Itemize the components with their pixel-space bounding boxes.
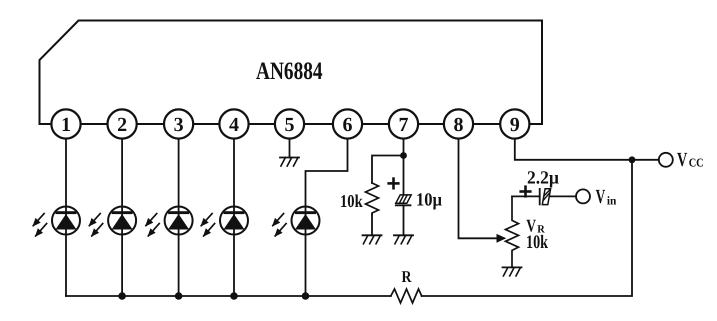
label 2.2u <box>527 168 559 188</box>
node junction at pin7 branch <box>400 152 407 159</box>
label Vin <box>596 186 617 208</box>
ground at C1 <box>394 235 413 244</box>
svg-text:8: 8 <box>454 114 464 136</box>
IC U1 AN6884 body outline <box>40 21 543 125</box>
wire junction to 10k resistor <box>372 156 404 184</box>
terminal Vin <box>576 189 590 203</box>
wire pin2 to bottom rail <box>121 139 123 296</box>
resistor R1 10k <box>366 183 379 215</box>
svg-text:10k: 10k <box>340 191 363 211</box>
pin 1 <box>51 109 80 138</box>
pin 5 <box>275 109 304 138</box>
label AN6884 <box>256 58 323 85</box>
svg-text:R: R <box>402 267 413 286</box>
wire C1 to ground <box>403 205 405 235</box>
label 10k (VR) <box>526 232 548 253</box>
ground at 10k <box>363 235 382 244</box>
LED D5 <box>273 207 320 236</box>
label 10k (left) <box>340 191 363 211</box>
wire pin1 to bottom rail <box>65 139 67 296</box>
svg-text:2: 2 <box>117 114 127 136</box>
label Vcc <box>677 149 704 171</box>
svg-text:in: in <box>607 194 617 208</box>
label + for C1 <box>389 179 399 189</box>
ground at pin 5 <box>280 158 299 167</box>
node junction rail at D5 <box>302 292 310 300</box>
node junction rail at D2 <box>118 292 126 300</box>
label + for C2 <box>521 187 531 197</box>
svg-text:3: 3 <box>174 114 184 136</box>
pin 4 <box>219 109 248 138</box>
node junction rail at D3 <box>175 292 183 300</box>
wire pin3 to bottom rail <box>178 139 180 296</box>
pin 6 <box>333 109 362 138</box>
svg-text:4: 4 <box>229 114 239 136</box>
svg-text:10k: 10k <box>526 232 548 253</box>
wire Vcc node down to bottom rail <box>422 160 632 296</box>
wire VR top to C2 <box>512 195 540 197</box>
potentiometer VR 10k <box>506 196 519 267</box>
wire bottom rail left of R <box>66 295 391 297</box>
capacitor C2 2.2u electrolytic <box>540 189 551 205</box>
wire pin6 jog to LED D5 column <box>306 139 348 296</box>
label R <box>402 267 413 286</box>
resistor R <box>391 289 422 303</box>
pin 9 <box>500 109 529 138</box>
svg-text:10µ: 10µ <box>416 191 442 211</box>
pin 2 <box>108 109 137 138</box>
terminal Vcc <box>659 153 673 167</box>
pin 7 <box>389 109 418 138</box>
pin 8 <box>444 109 473 138</box>
label VR <box>526 215 545 235</box>
svg-text:5: 5 <box>285 114 295 136</box>
ground at VR <box>503 267 522 276</box>
node junction Vcc <box>629 156 636 163</box>
LED D3 <box>146 207 193 236</box>
svg-text:V: V <box>596 186 606 208</box>
pin 3 <box>164 109 193 138</box>
wiper arrow into VR <box>497 234 507 243</box>
svg-text:6: 6 <box>343 114 353 136</box>
svg-text:9: 9 <box>510 114 520 136</box>
svg-text:7: 7 <box>399 114 409 136</box>
wire 10k to ground <box>371 215 373 236</box>
wire pin9 to Vcc rail <box>515 139 659 160</box>
LED D4 <box>201 207 248 236</box>
wire pin8 to potentiometer wiper arrow <box>459 139 498 239</box>
wire pin7 down <box>403 139 405 195</box>
wire C2 to Vin terminal <box>550 195 576 197</box>
svg-text:AN6884: AN6884 <box>256 58 323 85</box>
capacitor C1 10u electrolytic <box>396 195 411 205</box>
wire pin5 to ground <box>289 139 291 158</box>
svg-text:CC: CC <box>689 155 704 169</box>
node junction rail at D4 <box>230 292 238 300</box>
label 10u <box>416 191 442 211</box>
LED D1 <box>33 207 80 236</box>
LED D2 <box>89 207 136 236</box>
svg-text:V: V <box>677 149 688 171</box>
wire pin4 to bottom rail <box>233 139 235 296</box>
svg-text:1: 1 <box>61 114 71 136</box>
svg-text:2.2µ: 2.2µ <box>527 168 559 188</box>
